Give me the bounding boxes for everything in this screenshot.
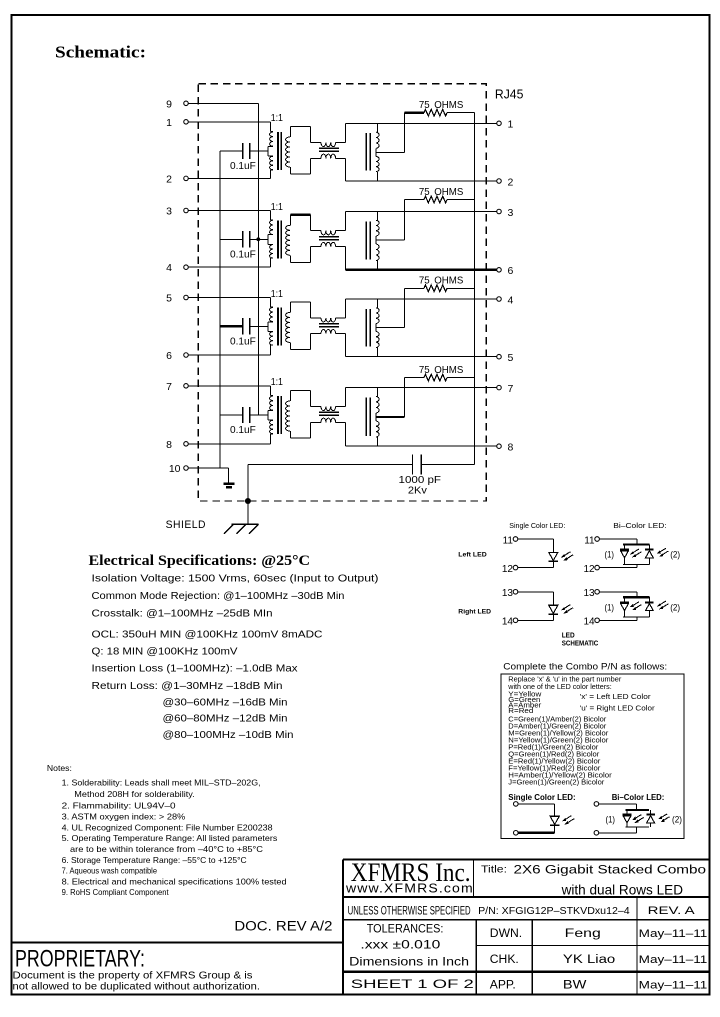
pin 7 (RJ45 right) (497, 383, 514, 395)
svg-text:(2): (2) (670, 550, 680, 560)
label Single Color LED (box) (508, 793, 575, 802)
transformer T1 primary winding (268, 132, 273, 170)
wire: T3 secondary bottom to choke L3 (290, 334, 310, 350)
capacitor C4 0.1uF (220, 407, 268, 436)
wire: T2B center tap to resistor (376, 200, 405, 241)
pin 14 (LED) (502, 617, 518, 628)
wire: choke L2 to output rails (345, 212, 347, 270)
svg-text:6: 6 (508, 265, 514, 277)
wire: choke L3 to output rails (345, 299, 347, 357)
svg-text:1000 pF: 1000 pF (399, 475, 442, 486)
pin 9 (left) (166, 98, 188, 110)
electrical specifications text (92, 574, 379, 742)
wire: pin 10 to ground (188, 468, 229, 482)
SHIELD label (166, 519, 206, 531)
svg-text:Q: 18 MIN @100KHz 100mV: Q: 18 MIN @100KHz 100mV (92, 647, 238, 658)
svg-text:(2): (2) (672, 815, 682, 825)
label 1:1 T3 (271, 288, 283, 300)
svg-text:RJ45: RJ45 (495, 86, 524, 101)
label (1) (605, 550, 615, 560)
svg-text:Notes:: Notes: (47, 764, 72, 773)
svg-text:1:1: 1:1 (271, 376, 283, 388)
svg-text:75 OHMS: 75 OHMS (419, 100, 464, 111)
label (2) (670, 602, 680, 612)
wire: T4B center tap to resistor (376, 378, 405, 417)
wire: RJ45 top rail ch1 (346, 122, 497, 124)
svg-text:5: 5 (508, 352, 514, 364)
pin 11 (bi-color LED) (584, 535, 599, 546)
svg-text:1:1: 1:1 (271, 201, 283, 213)
svg-text:SHIELD: SHIELD (166, 519, 206, 531)
wire: left pin top to T3 primary (188, 298, 270, 308)
title Schematic (55, 43, 146, 62)
svg-text:BW: BW (563, 979, 587, 991)
svg-text:www.XFMRS.com: www.XFMRS.com (345, 882, 474, 896)
capacitor C2 0.1uF (220, 231, 268, 260)
pin 4 (RJ45 right) (497, 294, 514, 306)
pin 14 (bi-color LED) (583, 617, 599, 628)
svg-text:6. Storage Temperature Range:: 6. Storage Temperature Range: –55°C to +… (62, 856, 247, 865)
label Right LED (458, 608, 491, 615)
wire: RJ45 bottom rail ch1 (346, 180, 497, 182)
transformer T4 secondary winding (286, 390, 291, 438)
svg-text:PROPRIETARY:: PROPRIETARY: (15, 946, 145, 973)
capacitor C3 0.1uF (220, 318, 268, 347)
autotransformer T2B (366, 212, 379, 270)
svg-text:Bi–Color LED:: Bi–Color LED: (613, 521, 666, 530)
svg-text:Crosstalk: @1–100MHz –25dB MIn: Crosstalk: @1–100MHz –25dB MIn (92, 609, 273, 620)
svg-text:7. Aqueous wash compatible: 7. Aqueous wash compatible (62, 867, 158, 876)
svg-text:are to be within tolerance fro: are to be within tolerance from –40°C to… (70, 845, 263, 854)
svg-text:@30–60MHz –16dB Min: @30–60MHz –16dB Min (163, 698, 288, 709)
autotransformer T1B (366, 123, 379, 181)
transformer T2 secondary winding (286, 215, 291, 263)
resistor R2 75 OHMS (405, 187, 475, 203)
label 1:1 T2 (271, 201, 283, 213)
svg-text:'u' = Right LED Color: 'u' = Right LED Color (580, 703, 656, 712)
svg-text:7: 7 (508, 383, 514, 395)
svg-text:1:1: 1:1 (271, 288, 283, 300)
wire: left pin bottom to T1 primary (188, 170, 270, 179)
svg-text:75 OHMS: 75 OHMS (419, 276, 464, 287)
svg-text:2. Flammability: UL94V–0: 2. Flammability: UL94V–0 (62, 801, 177, 810)
svg-text:Return Loss: @1–30MHz –18dB: Return Loss: @1–30MHz –18dB Min (92, 681, 283, 692)
common-mode choke L4 (310, 406, 345, 422)
autotransformer T4B (366, 388, 379, 447)
svg-text:Insertion Loss (1–100MHz): –1.: Insertion Loss (1–100MHz): –1.0dB Max (92, 664, 298, 675)
svg-text:Single Color LED:: Single Color LED: (509, 521, 565, 530)
wire: RJ45 bottom rail ch2 (346, 269, 497, 271)
notes text block (47, 764, 287, 897)
svg-text:0.1uF: 0.1uF (230, 250, 256, 261)
svg-text:Electrical Specifications:: Electrical Specifications: @25°C (89, 552, 311, 569)
pin 3 (left) (166, 206, 188, 218)
svg-text:SCHEMATIC: SCHEMATIC (562, 640, 599, 647)
svg-text:5: 5 (166, 293, 172, 305)
wire: left pin top to T4 primary (188, 386, 270, 396)
wire: left pin bottom to T4 primary (188, 434, 270, 444)
resistor R3 75 OHMS (405, 276, 475, 292)
transformer T1 core (278, 132, 282, 170)
junction: shield at module box (245, 498, 251, 504)
heading Electrical Specifications (89, 552, 311, 569)
pin 4 (left) (166, 262, 188, 274)
svg-text:DOC. REV A/2: DOC. REV A/2 (234, 919, 332, 934)
ground (signal) at pin 10 (224, 484, 235, 488)
svg-text:0.1uF: 0.1uF (230, 161, 256, 172)
wire: T3B center tap to resistor (376, 288, 405, 327)
label Single Color LED (509, 521, 565, 530)
svg-text:P/N: XFGIG12P–STKVDxu12–4: P/N: XFGIG12P–STKVDxu12–4 (478, 906, 630, 917)
svg-text:3. ASTM oxygen index: > 28%: 3. ASTM oxygen index: > 28% (62, 813, 186, 822)
ground (earth) shield (224, 524, 259, 534)
combo P/N text (507, 674, 655, 786)
svg-text:(1): (1) (605, 602, 615, 612)
svg-text:14: 14 (583, 617, 595, 628)
bi-color LED pair (pins 13/14) (600, 592, 669, 621)
svg-text:'x' = Left LED Color: 'x' = Left LED Color (580, 692, 651, 701)
svg-text:9. RoHS Compliant Component: 9. RoHS Compliant Component (62, 888, 170, 897)
transformer T3 core (278, 307, 282, 345)
svg-text:REV. A: REV. A (648, 905, 696, 917)
svg-text:75 OHMS: 75 OHMS (419, 365, 464, 376)
wire: pin 9 center-tap trunk B (188, 103, 258, 415)
svg-text:Common Mode Rejection: @1–100M: Common Mode Rejection: @1–100MHz –30dB M… (92, 591, 345, 602)
svg-text:1: 1 (166, 117, 172, 129)
svg-text:Single Color LED:: Single Color LED: (508, 793, 575, 802)
heading Complete the Combo P/N (503, 662, 667, 673)
pin 8 (left) (166, 439, 188, 451)
RJ45 label (495, 86, 524, 101)
proprietary box (12, 942, 343, 944)
wire: T4 secondary top to choke L4 (290, 390, 310, 406)
wire: T1 secondary top to choke L1 (290, 126, 310, 142)
common-mode choke L3 (310, 318, 345, 334)
svg-text:DWN.: DWN. (490, 928, 522, 940)
wire: T4 secondary bottom to choke L4 (290, 422, 310, 438)
svg-text:CHK.: CHK. (490, 954, 519, 966)
svg-text:13: 13 (583, 588, 595, 599)
wire: RJ45 top rail ch2 (346, 211, 497, 213)
svg-text:3: 3 (166, 206, 172, 218)
svg-text:8: 8 (166, 439, 172, 451)
svg-text:4: 4 (508, 294, 514, 306)
svg-text:May–11–11: May–11–11 (639, 979, 708, 991)
common-mode choke L2 (310, 231, 345, 247)
svg-text:(1): (1) (606, 815, 616, 825)
pin 6 (RJ45 right) (497, 265, 514, 277)
wire: T2 secondary top to choke L2 (290, 215, 310, 231)
DOC. REV A/2 (234, 919, 332, 934)
svg-text:UNLESS OTHERWISE SPECIFIED: UNLESS OTHERWISE SPECIFIED (348, 906, 471, 918)
pin 8 (RJ45 right) (497, 442, 514, 454)
bi-color LED pair (box) (594, 802, 670, 835)
pin 5 (RJ45 right) (497, 352, 514, 364)
pin 13 (LED) (502, 588, 518, 599)
svg-text:TOLERANCES:: TOLERANCES: (367, 921, 444, 935)
svg-text:4. UL Recognized Component: Fi: 4. UL Recognized Component: File Number … (62, 824, 274, 833)
svg-text:@60–80MHz –12dB Min: @60–80MHz –12dB Min (163, 714, 288, 725)
resistor R4 75 OHMS (405, 365, 475, 381)
svg-text:Isolation Voltage: 1500 Vrms: Isolation Voltage: 1500 Vrms, 60sec (Inp… (92, 574, 379, 585)
svg-text:0.1uF: 0.1uF (230, 425, 256, 436)
svg-text:75 OHMS: 75 OHMS (419, 187, 464, 198)
svg-text:@80–100MHz –10dB Min: @80–100MHz –10dB Min (163, 730, 294, 741)
capacitor 1000pF 2Kv (248, 455, 475, 497)
svg-text:Schematic:: Schematic: (55, 43, 146, 62)
svg-text:OCL: 350uH MIN @100KHz 100mV 8: OCL: 350uH MIN @100KHz 100mV 8mADC (92, 630, 323, 641)
label (2) (670, 550, 680, 560)
svg-text:Left LED: Left LED (458, 552, 486, 559)
svg-text:11: 11 (503, 535, 514, 546)
svg-text:9: 9 (166, 98, 172, 110)
label (1) (605, 602, 615, 612)
label (1) box (606, 815, 616, 825)
title block grid (343, 860, 710, 995)
svg-text:Feng: Feng (565, 928, 601, 940)
svg-text:3: 3 (508, 207, 514, 219)
label LED SCHEMATIC (562, 633, 599, 648)
wire: T1 secondary bottom to choke L1 (290, 158, 310, 174)
pin 1 (left) (166, 117, 188, 129)
pin 12 (bi-color LED) (583, 564, 599, 575)
wire: RJ45 top rail ch3 (346, 298, 497, 300)
pin 6 (left) (166, 350, 188, 362)
transformer T2 core (278, 220, 282, 258)
LED single color (pins 11/12) (518, 539, 573, 568)
svg-text:Dimensions in Inch: Dimensions in Inch (349, 955, 469, 969)
label 1:1 T1 (271, 112, 283, 124)
wire: choke L1 to output rails (345, 123, 347, 181)
svg-text:(2): (2) (670, 602, 680, 612)
svg-text:SHEET 1 OF 2: SHEET 1 OF 2 (351, 977, 474, 991)
LED single color (box) (514, 802, 575, 835)
pin 2 (RJ45 right) (497, 176, 514, 188)
wire: capacitor ground trunk A (219, 151, 221, 468)
svg-text:2X6 Gigabit Stacked Combo: 2X6 Gigabit Stacked Combo (514, 863, 707, 877)
transformer T3 secondary winding (286, 302, 291, 350)
transformer module dashed box (198, 84, 486, 501)
transformer T3 primary winding (268, 307, 273, 345)
svg-text:Bi–Color LED:: Bi–Color LED: (612, 793, 665, 802)
wire: choke L4 to output rails (345, 388, 347, 447)
svg-text:(1): (1) (605, 550, 615, 560)
svg-text:6: 6 (166, 350, 172, 362)
pin 2 (left) (166, 173, 188, 185)
LED single color (pins 13/14) (518, 592, 573, 621)
pin 1 (RJ45 right) (497, 119, 514, 131)
transformer T2 primary winding (268, 220, 273, 258)
svg-text:May–11–11: May–11–11 (639, 954, 708, 966)
svg-text:4: 4 (166, 262, 172, 274)
svg-text:11: 11 (584, 535, 595, 546)
wire: left pin bottom to T2 primary (188, 258, 270, 267)
transformer T1 secondary winding (286, 126, 291, 174)
common-mode choke L1 (310, 142, 345, 158)
svg-text:not allowed to be duplicat: not allowed to be duplicated without aut… (13, 981, 261, 992)
svg-text:APP.: APP. (490, 979, 516, 991)
svg-text:YK Liao: YK Liao (563, 954, 615, 966)
svg-text:Complete the Combo P/N as: Complete the Combo P/N as follows: (503, 662, 667, 673)
pin 5 (left) (166, 293, 188, 305)
svg-text:May–11–11: May–11–11 (639, 928, 708, 940)
title block text (345, 858, 707, 991)
combo P/N box (501, 674, 684, 839)
svg-text:5. Operating Temperature Range: 5. Operating Temperature Range: All list… (62, 834, 278, 843)
wire: T3 secondary top to choke L3 (290, 302, 310, 318)
wire: shield stem (247, 464, 249, 523)
svg-text:Title:: Title: (481, 864, 507, 876)
label Bi-Color LED (box) (612, 793, 665, 802)
label Bi-Color LED (613, 521, 666, 530)
pin 3 (RJ45 right) (497, 207, 514, 219)
svg-text:with dual Rows LED: with dual Rows LED (561, 883, 684, 898)
bi-color LED pair (pins 11/12) (600, 539, 669, 568)
wire: T1B center tap to resistor (376, 113, 405, 153)
wire: RJ45 bottom rail ch3 (346, 356, 497, 358)
svg-text:1. Solderability: Leads shall: 1. Solderability: Leads shall meet MIL–S… (62, 779, 261, 788)
wire: resistor bus trunk (right) (474, 113, 476, 465)
autotransformer T3B (366, 299, 379, 357)
svg-text:2Kv: 2Kv (408, 486, 428, 497)
svg-text:12: 12 (502, 564, 514, 575)
svg-text:1:1: 1:1 (271, 112, 283, 124)
wire: left pin top to T1 primary (188, 122, 270, 132)
label Left LED (458, 552, 486, 559)
transformer T4 primary winding (268, 396, 273, 434)
svg-text:8: 8 (508, 442, 514, 454)
label (2) box (672, 815, 682, 825)
svg-text:12: 12 (583, 564, 595, 575)
wire: left pin top to T2 primary (188, 211, 270, 220)
pin 13 (bi-color LED) (583, 588, 599, 599)
svg-text:2: 2 (166, 173, 172, 185)
proprietary text (13, 946, 261, 993)
svg-text:13: 13 (502, 588, 514, 599)
svg-text:Method 208H for solderability.: Method 208H for solderability. (74, 790, 194, 799)
svg-text:7: 7 (166, 381, 172, 393)
svg-text:8. Electrical and mechanical s: 8. Electrical and mechanical specificati… (62, 877, 287, 886)
transformer T4 core (278, 396, 282, 434)
svg-text:14: 14 (502, 617, 514, 628)
pin 10 (left) (169, 463, 188, 475)
svg-text:.xxx ±0.010: .xxx ±0.010 (360, 937, 440, 951)
svg-text:Right LED: Right LED (458, 608, 491, 615)
label 1:1 T4 (271, 376, 283, 388)
capacitor C1 0.1uF (220, 143, 268, 172)
svg-text:J=Green(1)/Green(2) Bicolor: J=Green(1)/Green(2) Bicolor (508, 778, 605, 787)
svg-text:10: 10 (169, 463, 181, 475)
svg-text:0.1uF: 0.1uF (230, 337, 256, 348)
svg-text:Document is the property o: Document is the property of XFMRS Group … (13, 970, 253, 981)
pin 7 (left) (166, 381, 188, 393)
wire: T2 secondary bottom to choke L2 (290, 247, 310, 263)
junction: trunk B to C2 (256, 237, 260, 241)
pin 11 (LED) (503, 535, 518, 546)
svg-text:1: 1 (508, 119, 514, 131)
pin 12 (LED) (502, 564, 518, 575)
svg-text:LED: LED (562, 633, 575, 640)
svg-text:2: 2 (508, 176, 514, 188)
wire: RJ45 bottom rail ch4 (346, 445, 497, 447)
wire: RJ45 top rail ch4 (346, 387, 497, 389)
resistor R1 75 OHMS (405, 100, 475, 116)
wire: left pin bottom to T3 primary (188, 345, 270, 355)
